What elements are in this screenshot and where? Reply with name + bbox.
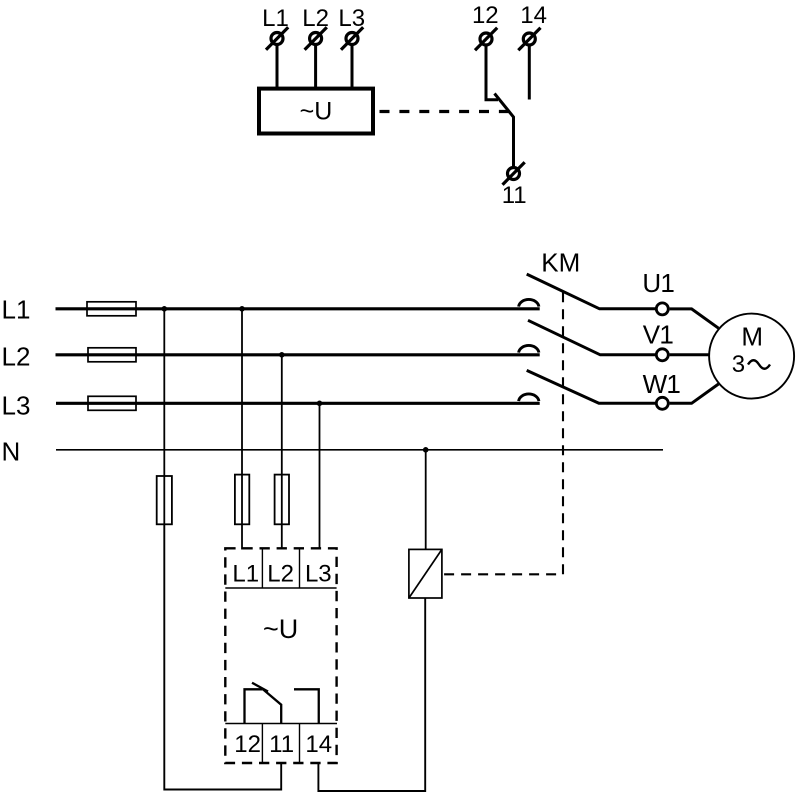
inner line under input cells xyxy=(225,587,336,589)
contactor coil KM xyxy=(409,549,442,598)
wire coil bottom to terminal 14 xyxy=(318,598,425,791)
svg-text:L1: L1 xyxy=(2,295,31,325)
svg-text:12: 12 xyxy=(472,2,499,29)
svg-text:V1: V1 xyxy=(643,319,674,349)
svg-text:KM: KM xyxy=(541,248,580,278)
svg-text:N: N xyxy=(2,436,21,466)
fuse F5 xyxy=(235,475,249,525)
KM contact pole 1: fixed hump xyxy=(519,299,539,306)
wire from terminal 14 (open) xyxy=(528,46,531,100)
svg-text:~U: ~U xyxy=(263,614,298,644)
N rail xyxy=(56,449,663,451)
wire F4 down and bottom wire to terminal 11 xyxy=(164,524,281,789)
KM contact pole 3: blade and wire to W1 xyxy=(527,370,656,403)
terminal W1 xyxy=(656,397,668,409)
junction dot N coil tap xyxy=(423,447,429,453)
wire L3 terminal to relay box xyxy=(351,46,354,89)
svg-text:11: 11 xyxy=(269,731,294,758)
svg-text:12: 12 xyxy=(234,731,261,758)
L1 rail xyxy=(56,307,540,310)
KM contact pole 1: blade and wire to U1 xyxy=(527,274,656,309)
svg-text:3: 3 xyxy=(732,351,745,378)
svg-text:L2: L2 xyxy=(2,342,31,372)
svg-text:L2: L2 xyxy=(267,561,294,588)
wire V1 to motor xyxy=(670,353,709,356)
svg-text:~U: ~U xyxy=(300,98,333,126)
svg-text:L1: L1 xyxy=(262,5,289,32)
KM mechanical linkage dashed and link to coil xyxy=(443,292,564,574)
terminal 14 xyxy=(518,28,540,50)
inner line above output cells xyxy=(225,723,337,725)
junction dot L3 tap xyxy=(317,401,323,407)
dashed mechanical link box to contact xyxy=(380,110,510,113)
terminal U1 xyxy=(656,303,668,315)
svg-text:L3: L3 xyxy=(305,561,332,588)
relay contact: moving arm to 11 xyxy=(263,690,281,724)
terminal 11 xyxy=(503,162,525,184)
contact blade 12-11 (NC) xyxy=(495,94,514,168)
junction dot L1 tap 2 xyxy=(239,306,245,312)
junction dot L1 tap 1 xyxy=(162,306,168,312)
sine symbol of 3~ xyxy=(748,360,770,369)
fuse F6 xyxy=(275,475,289,525)
relay box (top pictogram) xyxy=(259,89,373,134)
cell divider L1/L2 xyxy=(261,548,263,588)
wire U1 to motor xyxy=(670,309,719,328)
L2 rail xyxy=(56,353,540,356)
wire L1 terminal to relay box xyxy=(276,46,279,89)
wire N to contactor coil xyxy=(425,450,427,550)
svg-text:14: 14 xyxy=(305,731,332,758)
terminal L2 xyxy=(305,27,327,49)
fuse F1 on L1 xyxy=(87,302,136,316)
svg-text:U1: U1 xyxy=(642,268,674,298)
fuse F2 on L2 xyxy=(88,348,136,362)
fuse F4 xyxy=(157,476,172,524)
terminal L3 xyxy=(341,27,363,49)
relay contact: lead 12 with fixed bar xyxy=(245,689,263,723)
wire W1 to motor xyxy=(670,384,719,403)
svg-text:M: M xyxy=(741,322,763,352)
wire from terminal 12 to fixed contact xyxy=(486,46,498,100)
svg-text:L3: L3 xyxy=(2,390,31,420)
terminal V1 xyxy=(656,349,668,361)
relay contact: NC slash xyxy=(252,683,268,692)
cell divider L2/L3 xyxy=(299,548,301,588)
terminal L1 xyxy=(266,27,288,49)
wire L2 terminal to relay box xyxy=(314,46,317,89)
wire L1 tap down through fuse F4 xyxy=(163,309,165,525)
wire L3 tap down to relay box L3 xyxy=(319,403,321,549)
svg-text:14: 14 xyxy=(520,2,547,29)
svg-text:L1: L1 xyxy=(232,561,259,588)
svg-text:11: 11 xyxy=(502,182,527,209)
wire L2 tap down xyxy=(281,355,283,550)
KM contact pole 2: blade and wire to V1 xyxy=(528,320,655,355)
wire L1 tap 2 down xyxy=(241,309,243,550)
cell divider 12/11 xyxy=(261,724,263,763)
relay contact: fixed 14 xyxy=(294,689,319,723)
terminal 12 xyxy=(475,28,497,50)
KM contact pole 2: fixed hump xyxy=(519,345,539,352)
svg-text:W1: W1 xyxy=(643,369,681,399)
cell divider 11/14 xyxy=(299,724,301,763)
KM contact pole 3: fixed hump xyxy=(519,394,539,401)
motor M circle xyxy=(709,314,794,399)
junction dot L2 tap xyxy=(279,352,285,358)
fuse F3 on L3 xyxy=(88,396,136,410)
relay dashed outline box xyxy=(225,548,336,763)
L3 rail xyxy=(56,402,540,405)
